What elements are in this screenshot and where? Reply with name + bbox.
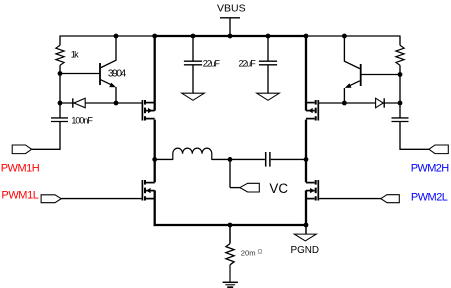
svg-text:3904: 3904 [108,69,127,80]
svg-text:PWM2L: PWM2L [411,192,448,204]
svg-text:Ω: Ω [258,249,263,256]
svg-text:22uF: 22uF [203,58,221,68]
svg-text:PWM1L: PWM1L [1,189,39,201]
svg-text:PGND: PGND [291,245,320,256]
svg-text:PWM2H: PWM2H [411,162,450,174]
svg-text:22uF: 22uF [239,58,257,68]
svg-text:1k: 1k [71,50,79,60]
svg-text:100nF: 100nF [71,116,93,126]
svg-text:PWM1H: PWM1H [1,162,40,174]
svg-text:VC: VC [269,181,288,196]
svg-text:VBUS: VBUS [217,2,246,14]
svg-text:20m: 20m [241,248,256,257]
